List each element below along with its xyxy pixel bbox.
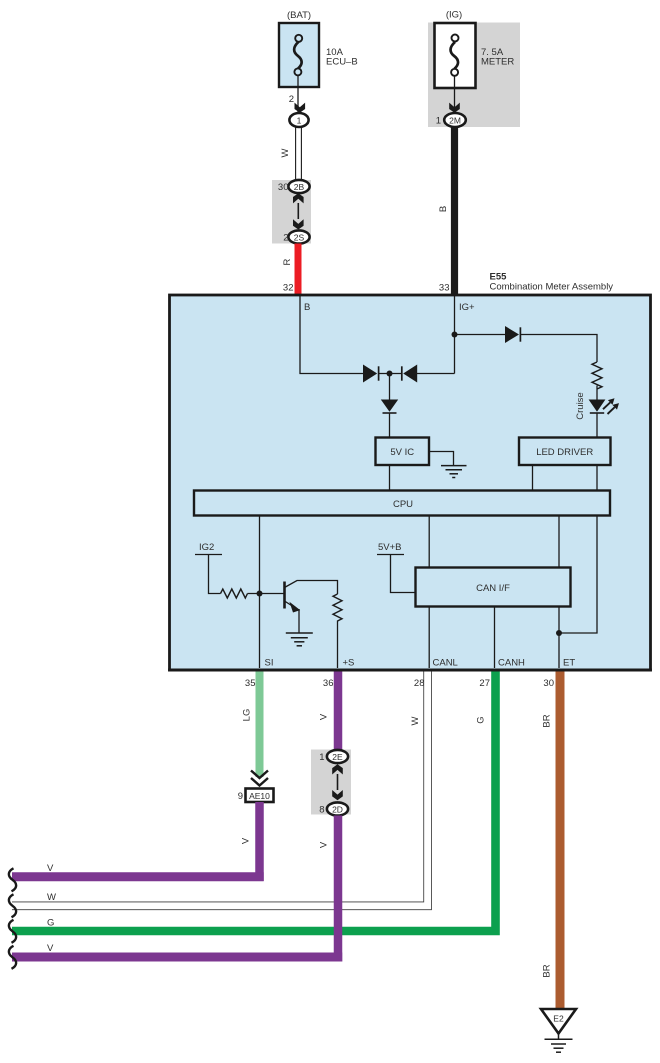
svg-text:CPU: CPU [393,499,413,510]
svg-text:(BAT): (BAT) [287,10,311,21]
svg-text:CANH: CANH [498,658,525,669]
svg-text:2S: 2S [294,233,305,243]
svg-text:B: B [304,302,310,313]
svg-text:AE10: AE10 [249,791,270,801]
svg-text:1: 1 [436,116,441,127]
svg-text:ET: ET [563,658,575,669]
svg-text:5V IC: 5V IC [390,447,414,458]
svg-text:5V+B: 5V+B [378,542,402,553]
svg-text:36: 36 [323,678,334,689]
svg-text:2M: 2M [449,116,461,126]
svg-text:+S: +S [343,658,355,669]
svg-text:METER: METER [481,57,514,68]
svg-text:SI: SI [265,658,274,669]
svg-text:2E: 2E [332,752,343,762]
svg-text:30: 30 [278,182,289,193]
svg-text:BR: BR [542,964,553,977]
svg-text:28: 28 [414,678,425,689]
svg-text:9: 9 [238,791,243,802]
svg-text:V: V [319,841,330,848]
svg-text:Cruise: Cruise [575,392,586,419]
svg-text:W: W [280,148,291,157]
svg-text:2D: 2D [332,805,343,815]
svg-text:CAN I/F: CAN I/F [476,583,510,594]
svg-text:V: V [47,943,54,954]
svg-text:2: 2 [289,94,294,105]
svg-text:32: 32 [283,283,294,294]
svg-text:8: 8 [319,805,324,816]
svg-text:2B: 2B [294,182,305,192]
svg-text:R: R [282,258,293,265]
svg-text:CANL: CANL [433,658,458,669]
svg-text:B: B [438,206,449,212]
svg-text:W: W [410,716,421,725]
svg-text:W: W [47,892,56,903]
svg-text:IG2: IG2 [199,542,214,553]
svg-text:V: V [47,863,54,874]
svg-text:35: 35 [245,678,256,689]
svg-text:(IG): (IG) [446,10,462,21]
svg-text:G: G [47,918,54,929]
svg-text:33: 33 [439,283,450,294]
svg-text:LED DRIVER: LED DRIVER [536,447,593,458]
svg-text:ECU–B: ECU–B [326,57,358,68]
svg-text:E2: E2 [553,1014,564,1024]
svg-text:V: V [319,713,330,720]
svg-text:30: 30 [543,678,554,689]
svg-text:LG: LG [242,709,253,722]
svg-text:V: V [241,837,252,844]
svg-text:1: 1 [319,752,324,763]
svg-text:2: 2 [283,233,288,244]
svg-text:BR: BR [542,714,553,727]
svg-text:1: 1 [297,116,302,126]
svg-text:G: G [476,716,487,723]
svg-text:IG+: IG+ [459,302,475,313]
svg-text:27: 27 [479,678,490,689]
svg-text:Combination Meter Assembly: Combination Meter Assembly [490,282,614,293]
